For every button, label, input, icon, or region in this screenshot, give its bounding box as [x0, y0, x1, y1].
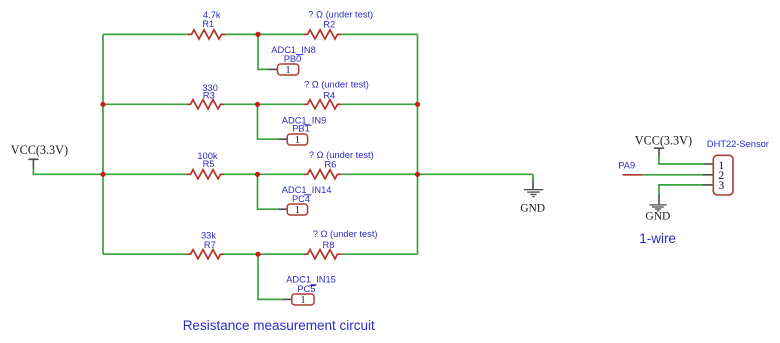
wire: row3 horizontal: [33, 173, 187, 175]
svg-text:PB0: PB0: [284, 54, 302, 64]
ADC branch 3 : PC4: [258, 174, 332, 216]
svg-text:DHT22-Sensor: DHT22-Sensor: [707, 139, 769, 149]
svg-text:1: 1: [295, 205, 300, 216]
svg-text:? Ω (under test): ? Ω (under test): [309, 150, 374, 160]
ground GND left: [520, 174, 545, 214]
wire pin1: [659, 156, 703, 165]
wire: row2 horizontal: [103, 103, 187, 105]
svg-text:R3: R3: [203, 91, 215, 101]
svg-text:PA9: PA9: [618, 160, 635, 170]
ADC branch 1 : PB0: [258, 34, 316, 76]
svg-text:R8: R8: [323, 240, 335, 250]
resistor R2: [304, 9, 373, 39]
svg-text:? Ω (under test): ? Ω (under test): [313, 229, 378, 239]
svg-text:? Ω (under test): ? Ω (under test): [304, 80, 369, 90]
svg-text:ADC1_IN15: ADC1_IN15: [286, 275, 336, 285]
resistor R5: [187, 151, 224, 179]
wire pin3: [659, 185, 703, 194]
wire: right bus vertical: [417, 34, 419, 254]
wire: row4 horizontal: [103, 253, 187, 255]
svg-text:3: 3: [718, 178, 724, 192]
svg-text:VCC(3.3V): VCC(3.3V): [635, 134, 692, 148]
svg-text:GND: GND: [645, 211, 670, 223]
svg-text:R7: R7: [204, 240, 216, 250]
svg-text:R4: R4: [323, 90, 335, 100]
svg-text:1: 1: [300, 295, 305, 306]
svg-text:1: 1: [285, 65, 290, 76]
ground GND right: [645, 194, 670, 222]
power VCC(3.3V) left: [11, 143, 68, 175]
svg-text:? Ω (under test): ? Ω (under test): [308, 9, 373, 19]
ADC branch 2 : PB1: [258, 104, 327, 146]
resistor R7: [187, 231, 224, 259]
wire: left bus vertical: [102, 34, 104, 254]
resistor R3: [187, 83, 224, 109]
svg-text:R5: R5: [203, 159, 215, 169]
wire: row1 horizontal: [103, 33, 188, 35]
wire pin2 (red stub + green): [623, 174, 643, 176]
svg-text:R2: R2: [323, 20, 335, 30]
connector U: DHT22-Sensor: [707, 139, 769, 195]
resistor R8: [304, 229, 378, 259]
resistor R6: [304, 150, 374, 179]
resistor R1: [188, 10, 225, 39]
svg-text:R6: R6: [324, 160, 336, 170]
svg-text:GND: GND: [520, 202, 545, 214]
svg-text:VCC(3.3V): VCC(3.3V): [11, 143, 68, 157]
svg-text:Resistance measurement circuit: Resistance measurement circuit: [183, 318, 375, 333]
power VCC(3.3V) right: [635, 134, 692, 156]
svg-text:33k: 33k: [201, 231, 216, 241]
junction dots: [100, 102, 105, 107]
svg-text:1-wire: 1-wire: [639, 231, 676, 246]
svg-text:PC4: PC4: [292, 194, 310, 204]
svg-text:R1: R1: [202, 19, 214, 29]
svg-text:1: 1: [295, 135, 300, 146]
resistor R4: [304, 80, 369, 109]
ADC branch 4 : PC5: [258, 254, 336, 306]
